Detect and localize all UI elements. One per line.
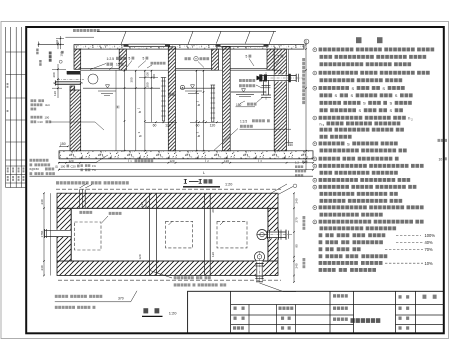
note text line 14 [313, 142, 317, 146]
note text line 19 [313, 178, 317, 182]
inlet pipe body [55, 80, 80, 82]
note text line 5 [320, 78, 324, 82]
plan: manhole dashed opening 2 [166, 221, 193, 248]
note text line 8 [320, 101, 324, 105]
svg-text:S: S [347, 141, 350, 146]
svg-text:L: L [203, 171, 205, 175]
svg-text:120: 120 [211, 252, 215, 257]
plan: vent pipe lines crossing top wall [79, 189, 81, 208]
plan: inner face rect [71, 208, 268, 261]
svg-text:5: 5 [246, 55, 248, 59]
svg-text:H: H [116, 105, 121, 108]
svg-text:1786: 1786 [40, 230, 44, 237]
section: tank ceiling soffit lines [80, 67, 119, 69]
small corner mark opening2 [169, 221, 173, 225]
svg-text:100: 100 [45, 116, 50, 120]
section: dip tube chamber1 [161, 78, 163, 122]
section: partition wall 1 (shaft1 right) [168, 47, 175, 151]
section: dim row2 L [59, 169, 313, 171]
svg-text:100: 100 [55, 39, 59, 44]
svg-text:150: 150 [236, 103, 242, 107]
inlet support bar [67, 71, 81, 74]
svg-text:S: S [395, 93, 398, 98]
svg-text:100%: 100% [425, 233, 436, 238]
inlet pipe dim line [53, 82, 83, 84]
note text line 6 [313, 86, 317, 90]
note text line 24 [320, 213, 324, 217]
section title I-I [184, 179, 186, 183]
svg-text:S: S [350, 93, 353, 98]
svg-text:90: 90 [295, 244, 299, 248]
section: shaft2 right wall [267, 49, 274, 70]
note text line 12 [320, 128, 324, 132]
section: inlet tee mouth circle chamber1 [88, 74, 98, 84]
svg-text:240: 240 [295, 198, 299, 203]
usage class line B with 40% [319, 240, 323, 244]
section: partition wall 2 [223, 47, 231, 151]
note text line 13 [320, 135, 324, 139]
svg-text:S: S [351, 86, 354, 91]
svg-text:200: 200 [52, 72, 56, 77]
text line above plan [56, 181, 59, 184]
small stacked labels near x83 [81, 164, 83, 167]
title block small labels [234, 307, 237, 310]
note text line 3 [320, 62, 324, 66]
svg-text:C20: C20 [71, 164, 77, 168]
svg-text:40%: 40% [425, 240, 434, 245]
note text line 18 [320, 171, 324, 175]
svg-text:S: S [363, 101, 366, 106]
note text line 20 [313, 185, 317, 189]
svg-text:5: 5 [143, 57, 145, 61]
section: top label and leader line [73, 29, 76, 32]
svg-text:120: 120 [138, 254, 142, 259]
chamber2 dim 60/120 [190, 121, 223, 123]
svg-text:h: h [320, 122, 322, 126]
note text line 1 [313, 48, 317, 52]
svg-text:10%: 10% [425, 261, 434, 266]
usage class line D [319, 254, 323, 258]
callout (7) at partition1 top [180, 85, 184, 89]
plan: right rotated label runs [303, 216, 306, 219]
section: bottom slab bottom line + dim row1 [59, 158, 313, 160]
section: interior vertical dim lines chamber1 [115, 71, 117, 151]
svg-text:120: 120 [53, 91, 57, 96]
svg-text:1:2.5: 1:2.5 [107, 57, 115, 61]
svg-text:120: 120 [165, 124, 171, 128]
svg-text:15: 15 [116, 63, 120, 67]
svg-text:5: 5 [278, 55, 280, 59]
title block outer [188, 291, 444, 333]
plan: bottom slab edge line [58, 279, 281, 281]
note text line 10 [313, 116, 317, 120]
usage class line C with 70% [319, 247, 323, 251]
second label leader line [65, 36, 94, 38]
svg-text:240: 240 [295, 263, 299, 268]
svg-text:60: 60 [153, 124, 157, 128]
inlet pipe centerline [57, 78, 84, 80]
outlet labels [239, 79, 242, 82]
svg-text:h: h [197, 104, 201, 106]
plan: outlet fitting lower (drain down) [254, 252, 264, 262]
svg-text:240: 240 [40, 199, 44, 204]
usage class closing line [319, 268, 323, 272]
svg-text:S: S [335, 93, 338, 98]
svg-text:h: h [197, 135, 201, 137]
plan: partition 1 double line [148, 193, 150, 275]
right wall footing step label 150 [287, 141, 294, 143]
title block rows [231, 304, 444, 306]
svg-text:h: h [138, 111, 142, 113]
svg-text:S: S [382, 86, 385, 91]
svg-text:300: 300 [130, 77, 134, 82]
section: outlet tee right [274, 74, 286, 81]
left revision strip table [5, 27, 7, 188]
svg-text:370: 370 [118, 296, 124, 300]
svg-text:6@150: 6@150 [30, 167, 40, 171]
svg-text:20: 20 [211, 209, 215, 213]
plan: manhole dashed opening 1 + ladder label [75, 222, 102, 250]
svg-text:1:3.5: 1:3.5 [240, 119, 247, 123]
svg-text:150: 150 [60, 142, 66, 146]
section: shaft1 left wall [119, 49, 126, 70]
usage class line E with 10% [319, 261, 323, 265]
section: right outer wall [274, 49, 286, 151]
svg-text:270: 270 [295, 217, 299, 222]
title block verticals [230, 291, 232, 333]
plan: top-right corner leaders [278, 187, 293, 195]
svg-text:5: 5 [129, 57, 131, 61]
note text line 26 [320, 226, 324, 230]
plan: partition 2 double line [204, 193, 206, 275]
svg-text:120: 120 [140, 202, 144, 207]
section: chamber2 dim lines [196, 71, 198, 151]
left wall small step [70, 86, 75, 90]
note text line 21 [320, 192, 324, 196]
plan title [143, 308, 148, 313]
left bottom slab note block [30, 159, 33, 162]
note text line 2 [320, 55, 324, 59]
section: left outer wall upper piece [74, 49, 81, 69]
svg-text:(1): (1) [55, 164, 58, 168]
svg-text:h: h [139, 135, 143, 137]
plan: outlet fitting upper (tee in plan) [257, 230, 267, 240]
svg-text:4x4: 4x4 [45, 103, 50, 107]
left mid text blocks (outside wall) [31, 99, 34, 102]
plan: inlet pipe stub left [56, 230, 71, 237]
svg-text:240: 240 [40, 265, 44, 270]
plan: bottom leader texts [174, 276, 177, 279]
note text line 9 [320, 108, 324, 112]
left side dim marks of section [57, 64, 59, 98]
section: left outer wall lower piece [70, 90, 81, 151]
section: water level chamber3 [231, 91, 266, 93]
svg-text:60: 60 [196, 124, 200, 128]
section: dip tube chamber2 [211, 85, 213, 122]
svg-text:100: 100 [145, 72, 149, 77]
section: bottom slab [59, 151, 313, 159]
section: ground/cover slab stipple band [74, 45, 304, 50]
plan: left dim chain [43, 193, 45, 275]
top-left dim cluster [39, 43, 65, 45]
svg-text:S: S [359, 108, 362, 113]
note text line 25 [313, 220, 317, 224]
plan: outer wall ring hatched [57, 193, 278, 208]
note text line 23 [313, 206, 317, 210]
svg-text:S: S [389, 108, 392, 113]
svg-text:70%: 70% [425, 247, 434, 252]
wall inner face continuation [80, 74, 82, 90]
svg-text:100: 100 [59, 51, 63, 56]
section: water level chamber2 [180, 87, 215, 89]
main thick frame [26, 27, 444, 333]
chamber2 label expansion joint (7) [185, 57, 188, 60]
right wall vertical label [302, 58, 305, 61]
note text line 15 [320, 149, 324, 153]
chamber1 dim 60/120 [145, 121, 177, 123]
top-left small dims above slab [60, 36, 62, 49]
note text line 16 [313, 157, 317, 161]
section: manhole cover 2 [217, 44, 268, 47]
svg-text:120: 120 [224, 159, 229, 163]
notes header [356, 37, 362, 43]
svg-text:120: 120 [169, 159, 174, 163]
plan: manhole dashed opening 3 [217, 221, 247, 248]
plan: right dim chain [293, 193, 295, 282]
outlet drop pipe [263, 80, 265, 95]
note text line 17 [313, 164, 317, 168]
svg-text:1:2: 1:2 [295, 160, 299, 164]
svg-text:100: 100 [61, 164, 66, 168]
svg-text:10: 10 [439, 157, 443, 161]
svg-text:S: S [389, 101, 392, 106]
section: water level chamber1 [83, 87, 160, 89]
section: shaft2 left wall [212, 49, 219, 70]
left strip tiny rotated marks [7, 83, 9, 85]
svg-text:120: 120 [210, 124, 216, 128]
svg-text:600: 600 [152, 74, 156, 79]
svg-text:200: 200 [145, 82, 149, 87]
drawing name [351, 318, 355, 323]
svg-text:1:20: 1:20 [225, 182, 232, 186]
note text line 7 [320, 93, 324, 97]
right side vertical dim line of section [305, 40, 307, 170]
plan: hidden slab edge top (dashed) [56, 188, 281, 190]
note text line 22 [320, 199, 324, 203]
svg-text:h: h [408, 117, 410, 121]
usage class line A with 100% [319, 233, 323, 237]
third full-width line [30, 175, 314, 177]
svg-text:C10: C10 [38, 120, 44, 124]
svg-text:1:20: 1:20 [169, 310, 178, 315]
note text line 4 [313, 71, 317, 75]
plan: bottom-left leader text 2 lines [55, 295, 58, 298]
section: manhole cover 1 [125, 44, 169, 47]
